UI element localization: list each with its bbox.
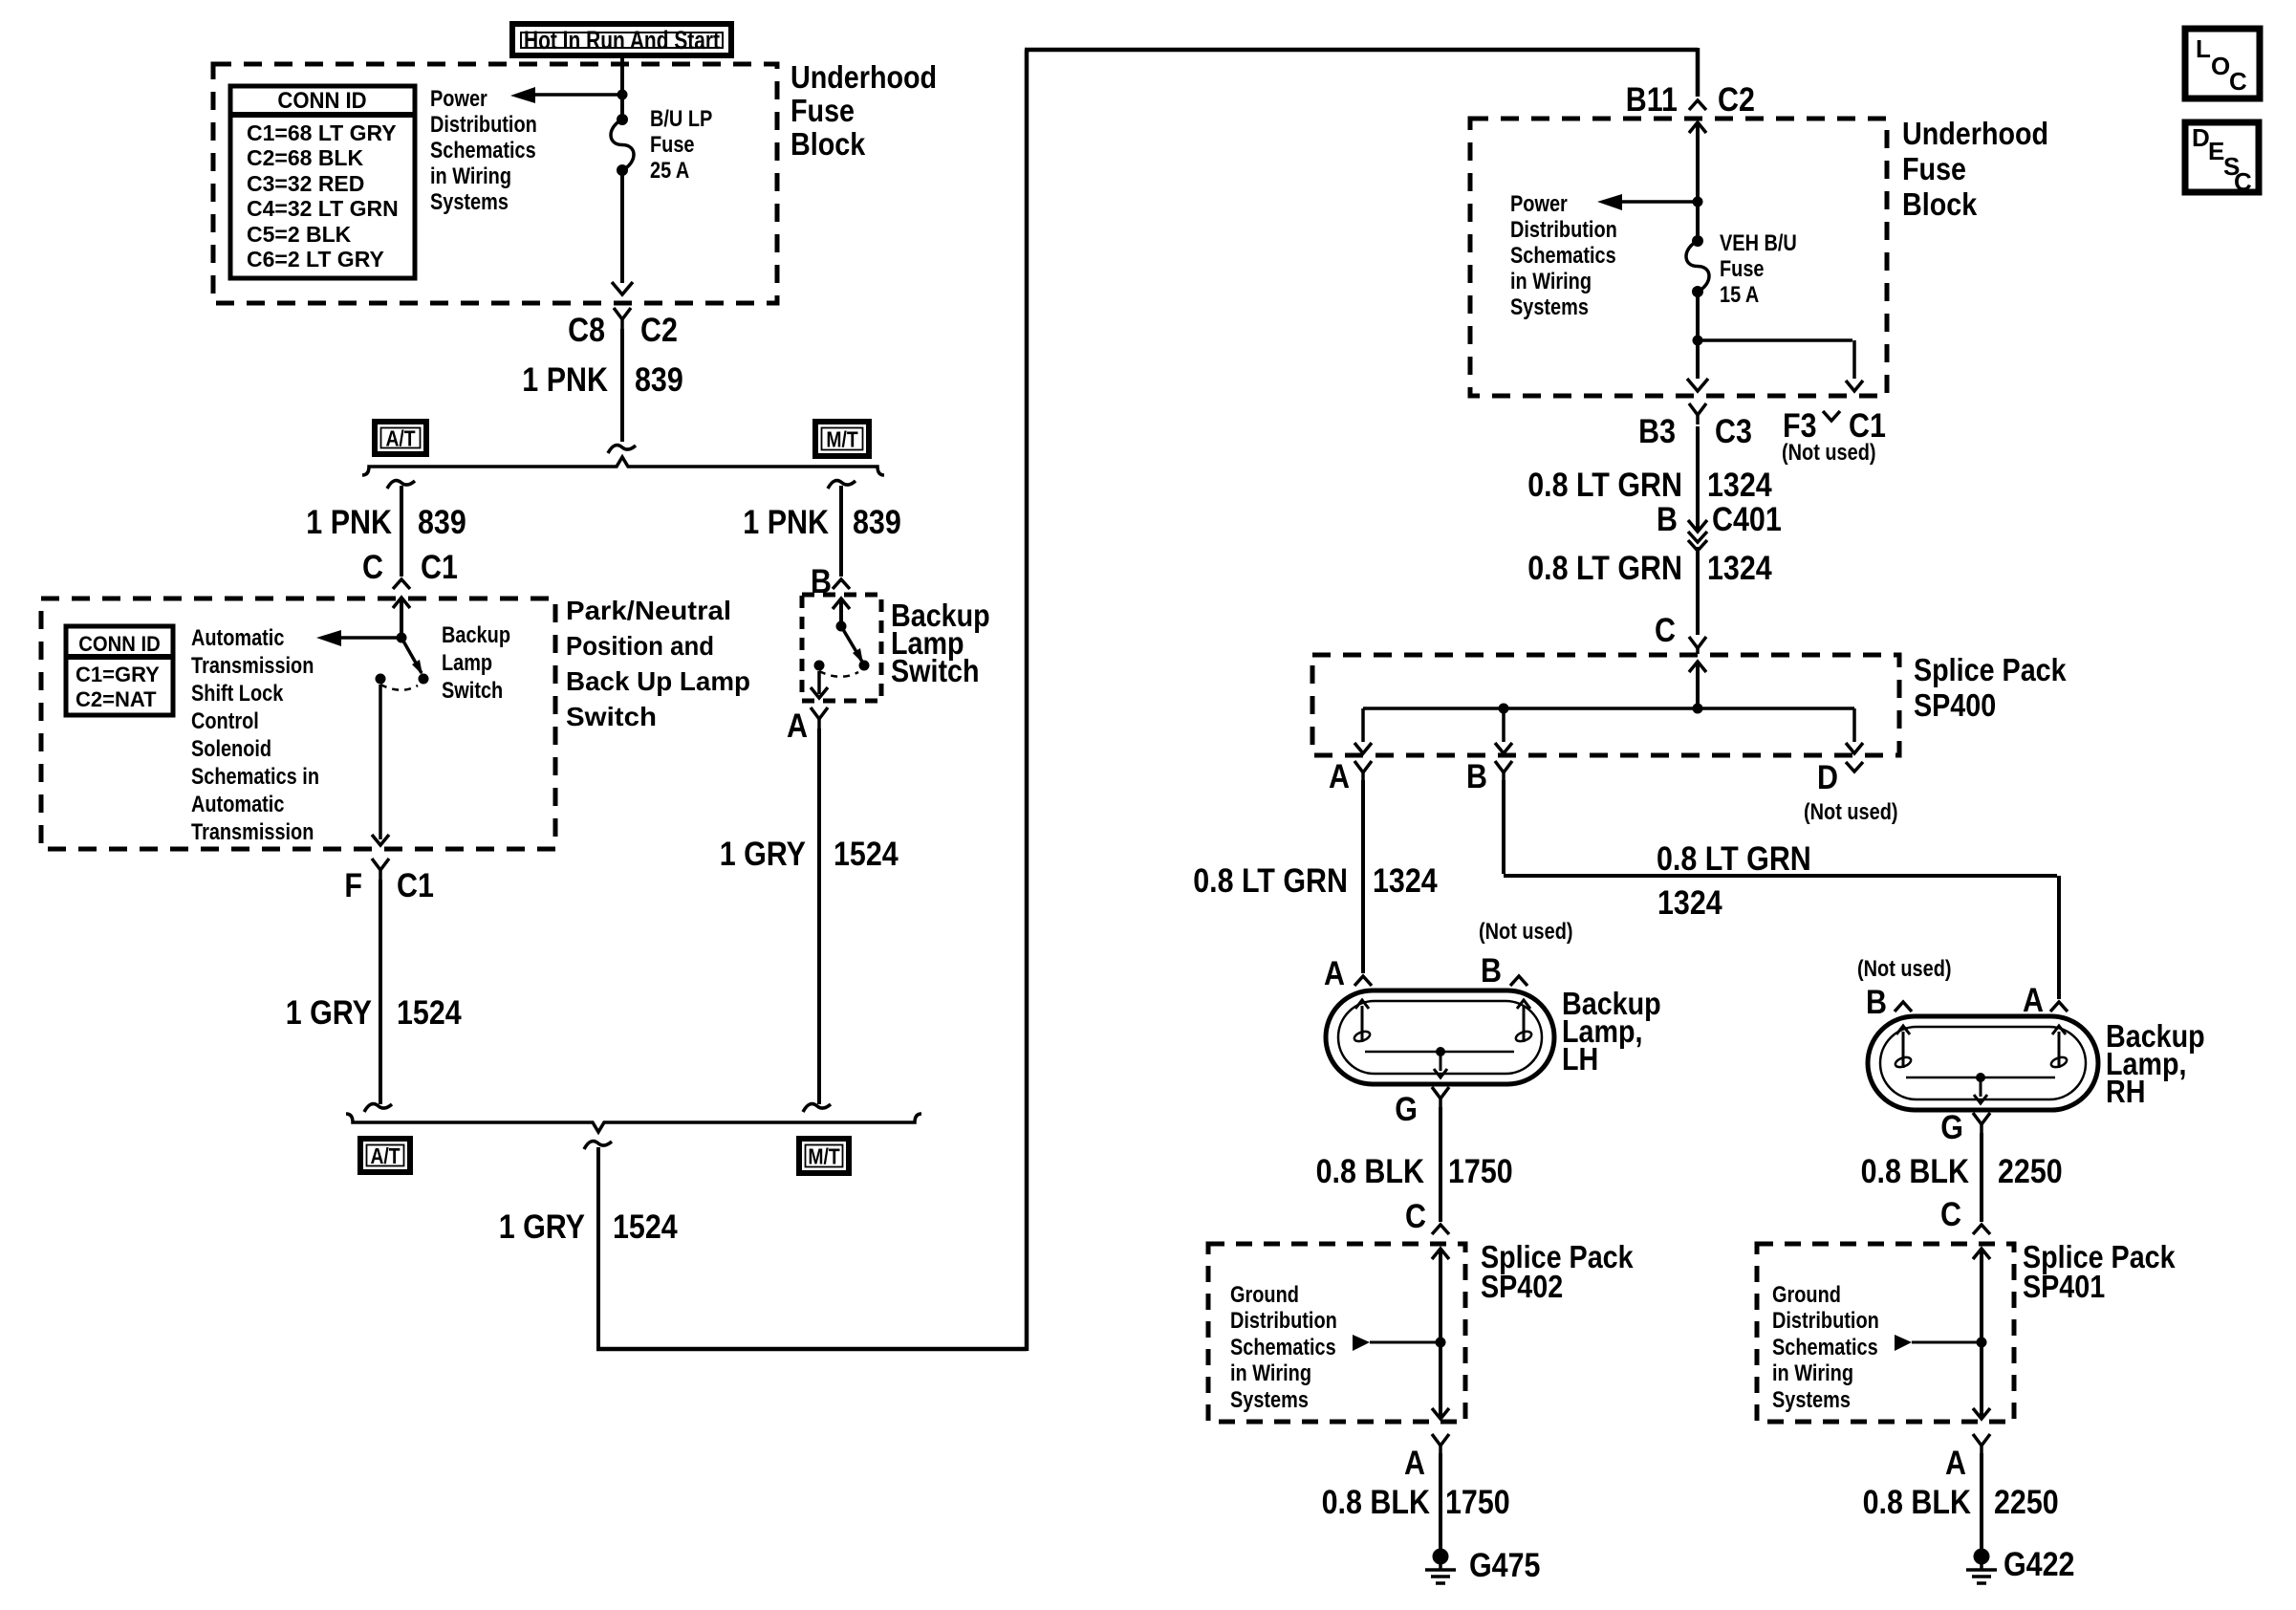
connector C8 C2 — [568, 308, 678, 349]
splice pack SP402 dashed box — [1208, 1244, 1465, 1422]
connector B LH lamp not used — [1481, 952, 1527, 990]
svg-text:Switch: Switch — [442, 678, 503, 704]
svg-text:Underhood: Underhood — [791, 59, 937, 95]
wire A/T branch with start hook — [387, 481, 415, 577]
arrow to shift lock schematics — [316, 630, 401, 646]
ground G475 — [1425, 1547, 1541, 1584]
connector A below backup lamp switch — [787, 707, 828, 745]
svg-text:0.8 BLK: 0.8 BLK — [1322, 1484, 1430, 1521]
svg-text:SP402: SP402 — [1481, 1269, 1563, 1304]
backup lamp switch dashed box (M/T) — [802, 595, 881, 701]
svg-text:0.8 BLK: 0.8 BLK — [1861, 1153, 1969, 1190]
label 1 PNK 839 center — [522, 361, 683, 399]
svg-text:C8: C8 — [568, 312, 605, 349]
backup lamp switch blade (A/T) with entry arrow — [376, 598, 429, 690]
splice pack SP402 internal wire — [1353, 1249, 1449, 1419]
svg-text:Distribution: Distribution — [1510, 217, 1617, 243]
connector B into backup lamp switch — [811, 563, 850, 600]
wire fuse to B3 exit with F3 stub — [1687, 295, 1863, 391]
note Ground Distribution Schematics (SP402) — [1230, 1282, 1337, 1413]
svg-text:A: A — [1404, 1445, 1425, 1482]
option box M/T bottom — [799, 1139, 849, 1173]
svg-text:1524: 1524 — [397, 994, 462, 1032]
svg-text:Transmission: Transmission — [191, 819, 314, 845]
svg-text:Control: Control — [191, 708, 259, 734]
svg-text:0.8 BLK: 0.8 BLK — [1316, 1153, 1424, 1190]
svg-text:RH: RH — [2106, 1074, 2146, 1109]
svg-text:1750: 1750 — [1445, 1484, 1510, 1521]
svg-text:in Wiring: in Wiring — [1230, 1360, 1311, 1386]
wire M/T branch with start hook — [828, 481, 856, 577]
svg-text:Automatic: Automatic — [191, 792, 284, 817]
svg-text:839: 839 — [635, 361, 683, 399]
arrow to power distribution schematics (left) — [510, 87, 622, 103]
svg-text:0.8 LT GRN: 0.8 LT GRN — [1193, 862, 1348, 900]
note Power Distribution Schematics in Wiring Systems (right) — [1510, 191, 1617, 320]
svg-text:C: C — [362, 549, 383, 586]
svg-text:Distribution: Distribution — [1230, 1308, 1337, 1334]
svg-text:0.8 LT GRN: 0.8 LT GRN — [1527, 467, 1682, 504]
svg-text:C1=GRY: C1=GRY — [76, 663, 160, 686]
svg-text:Backup: Backup — [442, 622, 510, 648]
label Splice Pack SP401 — [2023, 1239, 2176, 1304]
label 0.8 LT GRN 1324 lower — [1527, 550, 1772, 587]
connector C into SP402 — [1405, 1198, 1449, 1235]
brace A/T M/T top — [362, 457, 884, 475]
svg-text:G: G — [1940, 1109, 1963, 1146]
label 0.8 BLK 1750 lower — [1322, 1484, 1510, 1521]
connector G LH lamp — [1395, 1087, 1449, 1128]
svg-text:A/T: A/T — [370, 1143, 400, 1168]
connector A below SP402 — [1404, 1434, 1449, 1482]
note Automatic Transmission Shift Lock Control Solenoid Schematics — [191, 625, 319, 845]
svg-text:Schematics: Schematics — [1510, 243, 1616, 269]
svg-text:Block: Block — [791, 126, 866, 162]
svg-text:C: C — [1655, 612, 1676, 649]
power label box Hot In Run And Start — [512, 24, 731, 55]
svg-text:D: D — [2192, 123, 2210, 152]
svg-text:C1=68 LT GRY: C1=68 LT GRY — [247, 120, 397, 145]
label Backup Lamp Switch (A/T) — [442, 622, 510, 704]
note Power Distribution Schematics in Wiring Systems (left) — [430, 86, 537, 215]
wire 0.8 LT GRN 1324 lower — [1696, 547, 1700, 635]
svg-text:C4=32 LT GRN: C4=32 LT GRN — [247, 196, 399, 221]
brace A/T M/T bottom — [346, 1114, 921, 1132]
svg-text:B: B — [1466, 758, 1487, 795]
label 0.8 BLK 1750 upper — [1316, 1153, 1513, 1190]
svg-text:Systems: Systems — [1510, 294, 1589, 320]
svg-text:1524: 1524 — [834, 836, 899, 873]
svg-text:A: A — [2023, 982, 2044, 1019]
wire switch output to F C1 — [372, 685, 389, 845]
connector F3 C1 not used — [1782, 407, 1886, 466]
svg-text:Ground: Ground — [1230, 1282, 1299, 1308]
svg-text:0.8 BLK: 0.8 BLK — [1863, 1484, 1971, 1521]
wire 0.8 BLK 1750 to G475 — [1439, 1453, 1442, 1551]
svg-text:Systems: Systems — [1230, 1387, 1309, 1413]
svg-text:C5=2 BLK: C5=2 BLK — [247, 222, 352, 247]
splice pack SP401 dashed box — [1757, 1244, 2014, 1422]
svg-text:Systems: Systems — [1772, 1387, 1851, 1413]
svg-text:1524: 1524 — [613, 1208, 678, 1246]
svg-text:Distribution: Distribution — [1772, 1308, 1879, 1334]
svg-text:L: L — [2196, 34, 2211, 63]
svg-text:1 PNK: 1 PNK — [743, 504, 829, 541]
svg-text:Hot In Run And Start: Hot In Run And Start — [524, 26, 720, 54]
svg-text:A: A — [1324, 955, 1345, 992]
svg-text:Back Up Lamp: Back Up Lamp — [566, 666, 750, 696]
svg-text:A: A — [1945, 1445, 1966, 1482]
svg-text:Schematics in: Schematics in — [191, 764, 319, 790]
label Underhood Fuse Block (right) — [1902, 116, 2048, 222]
note Ground Distribution Schematics (SP401) — [1772, 1282, 1879, 1413]
svg-text:Ground: Ground — [1772, 1282, 1841, 1308]
svg-text:1324: 1324 — [1373, 862, 1438, 900]
svg-text:1 PNK: 1 PNK — [522, 361, 608, 399]
label not used LH B terminal — [1479, 919, 1573, 945]
svg-text:Splice Pack: Splice Pack — [1914, 652, 2067, 687]
label Park/Neutral Position and Back Up Lamp Switch — [566, 596, 750, 731]
svg-text:1324: 1324 — [1707, 467, 1772, 504]
connector C into splice pack SP400 — [1655, 612, 1706, 654]
wire 0.8 LT GRN 1324 upper — [1696, 426, 1700, 530]
fuse VEH B/U 15 A — [1686, 235, 1709, 297]
DESC reference box — [2185, 122, 2259, 196]
park/neutral position switch dashed box — [41, 598, 555, 849]
connector A RH lamp — [2023, 982, 2068, 1019]
inline connector B C401 — [1657, 501, 1782, 551]
svg-text:SP400: SP400 — [1914, 687, 1996, 723]
svg-text:Position and: Position and — [566, 631, 714, 661]
svg-text:B11: B11 — [1626, 81, 1678, 119]
svg-text:Transmission: Transmission — [191, 653, 314, 679]
label 0.8 LT GRN 1324 to RH lamp — [1657, 840, 1811, 922]
svg-text:25 A: 25 A — [650, 158, 689, 184]
svg-text:B/U LP: B/U LP — [650, 106, 712, 132]
svg-text:Fuse: Fuse — [791, 93, 855, 128]
svg-text:Systems: Systems — [430, 189, 509, 215]
backup lamp switch blade (M/T) — [811, 598, 870, 698]
svg-text:839: 839 — [853, 504, 901, 541]
connector B RH lamp not used — [1866, 984, 1912, 1021]
svg-text:1324: 1324 — [1657, 884, 1722, 922]
svg-text:C2=NAT: C2=NAT — [76, 687, 157, 711]
svg-text:Lamp: Lamp — [442, 650, 492, 676]
wire 1 GRY 1524 M/T branch down — [803, 729, 831, 1112]
underhood fuse block dashed box (right) — [1470, 119, 1887, 396]
wire 0.8 BLK 1750 LH to SP402 — [1439, 1107, 1442, 1222]
svg-text:C1: C1 — [421, 549, 458, 586]
label not used RH B terminal — [1857, 956, 1952, 982]
svg-text:Solenoid: Solenoid — [191, 736, 271, 762]
svg-text:Underhood: Underhood — [1902, 116, 2048, 151]
svg-text:C2=68 BLK: C2=68 BLK — [247, 145, 363, 170]
wire 0.8 BLK 2250 to G422 — [1980, 1453, 1983, 1551]
svg-text:C: C — [1940, 1196, 1961, 1233]
option split symbol above brace — [608, 446, 636, 453]
svg-text:0.8 LT GRN: 0.8 LT GRN — [1657, 840, 1811, 878]
svg-text:1324: 1324 — [1707, 550, 1772, 587]
label 0.8 LT GRN 1324 to LH lamp — [1193, 862, 1438, 900]
connector A LH lamp — [1324, 955, 1372, 992]
svg-text:F: F — [344, 867, 362, 904]
label 0.8 BLK 2250 upper — [1861, 1153, 2063, 1190]
CONN ID table (park/neutral switch) — [66, 626, 173, 715]
svg-text:C: C — [1405, 1198, 1426, 1235]
label Backup Lamp RH — [2106, 1018, 2205, 1109]
wire SP400 A to backup lamp LH — [1361, 780, 1365, 973]
svg-text:1 GRY: 1 GRY — [499, 1208, 585, 1246]
connector C C1 into park/neutral switch — [362, 549, 458, 589]
svg-text:SP401: SP401 — [2023, 1269, 2105, 1304]
svg-text:Power: Power — [430, 86, 487, 112]
svg-text:1 PNK: 1 PNK — [306, 504, 392, 541]
wire B11 entry down to fuse — [1689, 122, 1706, 237]
splice pack SP401 internal wire — [1895, 1249, 1990, 1419]
ground G422 — [1966, 1546, 2075, 1583]
junction node to power distribution (right) — [1693, 197, 1703, 207]
LOC reference box — [2185, 29, 2260, 98]
wire 1 PNK 839 center — [620, 329, 624, 442]
svg-text:CONN ID: CONN ID — [277, 88, 366, 114]
svg-text:Fuse: Fuse — [1902, 151, 1966, 186]
wire 1 GRY 1524 A/T branch down — [364, 880, 392, 1112]
svg-text:Schematics: Schematics — [1230, 1335, 1336, 1360]
svg-text:A: A — [1329, 758, 1350, 795]
svg-text:C2: C2 — [1718, 81, 1755, 119]
label 1 GRY 1524 joined — [499, 1208, 678, 1246]
svg-text:C: C — [2234, 167, 2252, 196]
connector A below SP401 — [1945, 1434, 1990, 1482]
arrow to power distribution schematics (right) — [1597, 194, 1698, 210]
connector D below SP400 not used — [1804, 759, 1898, 825]
svg-text:1 GRY: 1 GRY — [286, 994, 372, 1032]
backup lamp LH — [1326, 990, 1554, 1084]
svg-text:15 A: 15 A — [1720, 282, 1759, 308]
wire SP400 B to backup lamp RH — [1504, 780, 2059, 999]
svg-text:VEH B/U: VEH B/U — [1720, 230, 1797, 256]
svg-text:G422: G422 — [2004, 1546, 2075, 1583]
connector C into SP401 — [1940, 1196, 1990, 1234]
svg-text:(Not used): (Not used) — [1782, 440, 1876, 466]
svg-text:E: E — [2208, 137, 2224, 165]
label Backup Lamp Switch (M/T) — [891, 598, 990, 688]
underhood fuse block dashed box (left) — [213, 64, 777, 303]
svg-text:C2: C2 — [640, 312, 678, 349]
option box A/T bottom — [360, 1139, 410, 1172]
svg-text:in Wiring: in Wiring — [430, 163, 511, 189]
svg-text:Distribution: Distribution — [430, 112, 537, 138]
svg-text:LH: LH — [1562, 1041, 1598, 1077]
svg-text:C1: C1 — [397, 867, 434, 904]
svg-text:Fuse: Fuse — [1720, 256, 1765, 282]
svg-text:(Not used): (Not used) — [1479, 919, 1573, 945]
svg-text:839: 839 — [418, 504, 466, 541]
svg-text:B: B — [1866, 984, 1887, 1021]
svg-text:D: D — [1817, 759, 1838, 796]
fuse B/U LP 25 A — [611, 114, 634, 176]
label 1 GRY 1524 M/T branch — [720, 836, 899, 873]
label 1 PNK 839 A/T branch — [306, 504, 466, 541]
svg-text:in Wiring: in Wiring — [1772, 1360, 1853, 1386]
connector G RH lamp — [1940, 1109, 1990, 1146]
option split symbol below bottom brace — [584, 1142, 612, 1149]
svg-text:A: A — [787, 707, 808, 745]
svg-text:C3=32 RED: C3=32 RED — [247, 171, 364, 196]
wire from Hot In Run And Start into fuse block — [620, 55, 624, 117]
svg-text:Fuse: Fuse — [650, 132, 695, 158]
svg-text:A/T: A/T — [385, 426, 415, 451]
svg-text:C401: C401 — [1712, 501, 1782, 538]
label 1 GRY 1524 A/T branch — [286, 994, 462, 1032]
svg-text:1 GRY: 1 GRY — [720, 836, 806, 873]
connector B11 C2 — [1626, 81, 1755, 119]
svg-text:B: B — [1657, 501, 1678, 538]
label Splice Pack SP402 — [1481, 1239, 1634, 1304]
connector B3 C3 — [1638, 403, 1752, 450]
junction node to power distribution — [617, 90, 628, 100]
svg-text:Power: Power — [1510, 191, 1568, 217]
svg-text:C6=2 LT GRY: C6=2 LT GRY — [247, 247, 384, 272]
label VEH B/U Fuse 15 A — [1720, 230, 1797, 308]
connector B below SP400 — [1466, 758, 1512, 795]
label Backup Lamp LH — [1562, 986, 1661, 1077]
label 1 PNK 839 M/T branch — [743, 504, 901, 541]
svg-text:Switch: Switch — [891, 653, 980, 688]
svg-text:G: G — [1395, 1091, 1418, 1128]
svg-text:2250: 2250 — [1998, 1153, 2063, 1190]
wire 1 GRY 1524 long run to right fuse block — [596, 48, 1698, 1351]
svg-text:Switch: Switch — [566, 702, 657, 731]
svg-text:O: O — [2211, 52, 2230, 80]
connector A below SP400 — [1329, 758, 1372, 795]
svg-text:in Wiring: in Wiring — [1510, 269, 1592, 294]
svg-text:(Not used): (Not used) — [1804, 799, 1898, 825]
option box M/T top — [815, 422, 869, 456]
svg-text:Shift Lock: Shift Lock — [191, 681, 284, 707]
label B/U LP Fuse 25 A — [650, 106, 712, 184]
svg-text:C: C — [2229, 67, 2247, 96]
wire 0.8 BLK 2250 RH to SP401 — [1980, 1133, 1983, 1222]
option box A/T top — [375, 422, 426, 454]
backup lamp RH — [1868, 1016, 2098, 1110]
svg-text:B3: B3 — [1638, 413, 1676, 450]
svg-text:Schematics: Schematics — [430, 138, 536, 163]
label Splice Pack SP400 — [1914, 652, 2067, 723]
svg-text:C3: C3 — [1715, 413, 1752, 450]
svg-text:M/T: M/T — [826, 427, 857, 452]
CONN ID table (underhood fuse block) — [230, 86, 415, 278]
svg-text:M/T: M/T — [808, 1144, 839, 1169]
svg-text:B: B — [1481, 952, 1502, 990]
svg-text:Park/Neutral: Park/Neutral — [566, 596, 731, 625]
connector F C1 — [344, 859, 434, 904]
label 0.8 BLK 2250 lower — [1863, 1484, 2059, 1521]
svg-text:CONN ID: CONN ID — [78, 632, 161, 656]
splice pack SP400 internal bus — [1354, 662, 1863, 753]
label 0.8 LT GRN 1324 upper — [1527, 467, 1772, 504]
svg-text:G475: G475 — [1469, 1547, 1541, 1584]
splice pack SP400 dashed box — [1312, 655, 1899, 755]
svg-text:1750: 1750 — [1448, 1153, 1513, 1190]
svg-text:(Not used): (Not used) — [1857, 956, 1952, 982]
svg-text:2250: 2250 — [1994, 1484, 2059, 1521]
svg-text:0.8 LT GRN: 0.8 LT GRN — [1527, 550, 1682, 587]
svg-text:Block: Block — [1902, 186, 1978, 222]
label Underhood Fuse Block (left) — [791, 59, 937, 162]
svg-text:Automatic: Automatic — [191, 625, 284, 651]
svg-text:Schematics: Schematics — [1772, 1335, 1878, 1360]
wire fuse to C8 exit — [612, 175, 633, 294]
